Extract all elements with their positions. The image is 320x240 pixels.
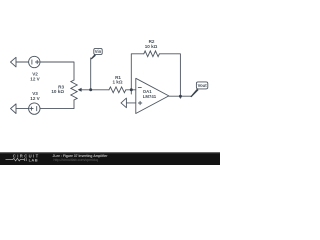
svg-text:12 V: 12 V bbox=[30, 96, 40, 101]
svg-text:1 kΩ: 1 kΩ bbox=[112, 80, 122, 85]
svg-text:10 kΩ: 10 kΩ bbox=[51, 89, 64, 94]
svg-text:Vin: Vin bbox=[95, 49, 102, 54]
svg-text:10 kΩ: 10 kΩ bbox=[145, 44, 158, 49]
svg-text:LAB: LAB bbox=[29, 157, 38, 162]
svg-text:V2: V2 bbox=[32, 71, 38, 76]
svg-text:12 V: 12 V bbox=[30, 77, 40, 82]
svg-text:LM741: LM741 bbox=[143, 94, 157, 99]
svg-text:http://circuitlab.com/cpmkkq: http://circuitlab.com/cpmkkq bbox=[54, 158, 98, 162]
svg-text:Vout: Vout bbox=[198, 83, 208, 88]
